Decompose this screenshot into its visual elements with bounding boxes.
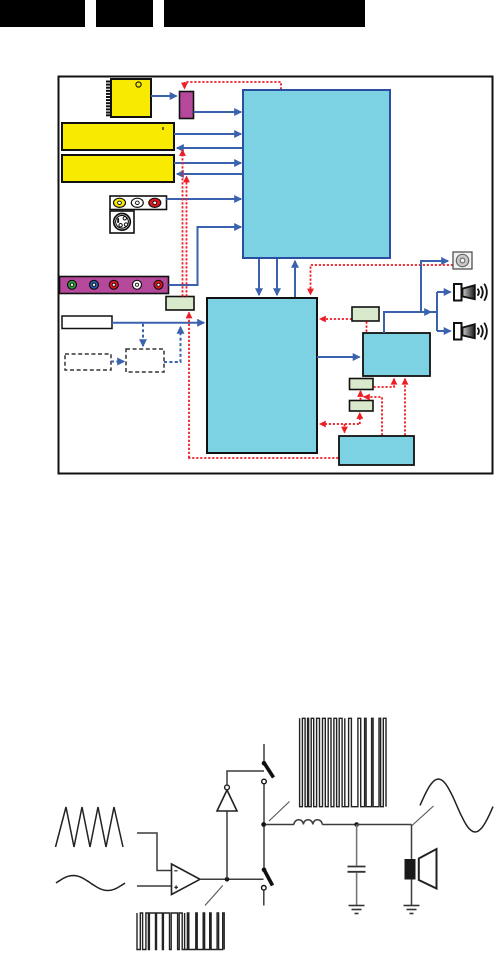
bus DSP to main IC <box>294 261 296 297</box>
speaker icon 1 <box>454 284 487 301</box>
PWM waveform at comparator output <box>137 913 224 950</box>
wire bottom switch down <box>263 890 265 905</box>
wire to speaker 1 <box>437 291 451 293</box>
comparator input wire minus <box>137 833 171 871</box>
speaker icon 2 <box>454 323 487 340</box>
tuner box 1 (yellow) <box>62 123 174 150</box>
inverter <box>217 785 237 811</box>
comparator input wire plus <box>137 885 171 887</box>
dashed supply line to tuner return 1 <box>182 150 184 297</box>
remote sensor dashed box <box>65 354 111 370</box>
cap node junction <box>354 822 359 827</box>
comparator output wire <box>200 878 264 880</box>
dashed wire sensor to remote box <box>111 361 124 363</box>
comparator U1 <box>172 864 201 895</box>
remote control dashed box <box>126 349 164 372</box>
power supply box (cyan) <box>339 436 414 465</box>
wire DVD to decoder <box>151 95 177 97</box>
bus main IC to DSP 1 <box>258 259 260 295</box>
dashed wire remote box up to key line <box>164 327 181 362</box>
main IC (large cyan) <box>243 90 390 258</box>
dashed feedback line into regulator 1 <box>188 313 190 459</box>
regulator green box 3 <box>350 379 374 390</box>
dashed power box branch to junction <box>364 397 382 436</box>
supply stub <box>263 744 265 762</box>
wire output node to bottom switch <box>263 826 265 868</box>
tuner box 2 (yellow) <box>62 155 174 182</box>
ground under speaker <box>404 906 420 914</box>
dashed supply line to tuner return 2 <box>186 177 188 297</box>
PWM waveform at switch output <box>300 718 386 806</box>
ground under capacitor <box>349 906 365 914</box>
triangle wave <box>56 807 124 847</box>
decoder box (purple) <box>180 92 194 119</box>
control dashed wire to decoder <box>185 82 282 90</box>
dashed link regulator 2 to amp <box>366 322 368 333</box>
wire rear jacks to main IC <box>169 227 242 285</box>
speaker split vertical <box>436 292 438 331</box>
wire node to inductor <box>266 824 295 826</box>
title bar 2 <box>96 0 153 27</box>
audio amp IC (cyan) <box>363 333 430 376</box>
wire main IC to tuner2 <box>177 173 243 175</box>
dashed power to regulator 4 <box>359 413 361 424</box>
leader line at speaker wire <box>412 806 434 826</box>
rear AV jack strip (magenta) <box>60 277 169 294</box>
wire AV input to main IC <box>167 198 242 200</box>
top switch <box>262 761 274 784</box>
dashed power box to amp <box>404 379 406 436</box>
wire DSP to amp <box>317 356 360 358</box>
node junction <box>225 877 230 882</box>
regulator green box 2 <box>352 307 379 321</box>
wire top switch to output node <box>263 784 265 823</box>
dashed power branch to power box <box>344 424 346 433</box>
bottom switch <box>262 868 273 891</box>
dashed regulator 4 to regulator 3 <box>360 391 362 400</box>
regulator green box 1 <box>166 297 194 311</box>
output sine wave <box>420 779 493 832</box>
wire speaker to ground <box>411 880 413 906</box>
wire down to speaker <box>411 825 413 860</box>
amp output wire <box>384 312 431 333</box>
inductor L1 <box>294 820 322 825</box>
DSP IC (second cyan) <box>207 298 317 453</box>
dashed wire key line to remote box <box>142 324 144 346</box>
DVD mechanism box <box>106 79 151 117</box>
subwoofer icon <box>453 252 472 269</box>
wire decoder to main IC <box>194 111 242 113</box>
wire inductor to cap node <box>322 824 356 826</box>
wire inverter to top switch <box>227 771 264 785</box>
leader line at comparator PWM <box>205 886 223 906</box>
wire main IC to tuner1 <box>177 147 243 149</box>
wire tuner2 to main IC <box>174 162 241 164</box>
dashed power to DSP <box>320 423 359 425</box>
wire key box to DSP <box>112 322 204 324</box>
leader line at output node <box>269 802 290 822</box>
input sine wave <box>56 876 125 891</box>
diagram panel border <box>59 77 493 474</box>
wire to subwoofer <box>421 261 448 312</box>
dashed line regulator 2 to DSP <box>320 318 352 320</box>
dashed line subwoofer out to DSP top <box>311 265 454 295</box>
wire node to inverter <box>226 811 228 879</box>
S-video DIN jack <box>110 211 134 233</box>
wire cap node to speaker <box>357 824 412 826</box>
regulator green box 4 <box>350 401 374 412</box>
dashed feedback bottom run <box>188 457 339 459</box>
output node <box>261 822 266 827</box>
speaker LS1 <box>405 849 437 889</box>
wire to speaker 2 <box>437 330 451 332</box>
title bar 1 <box>0 0 85 27</box>
bus main IC to DSP 2 <box>276 259 278 295</box>
title bar 3 <box>164 0 365 27</box>
capacitor C1 <box>348 825 366 906</box>
wire to speaker split <box>429 311 437 313</box>
dashed regulator 3 to amp <box>374 379 395 387</box>
AV input jacks (RCA strip) <box>110 196 167 210</box>
front key box (white) <box>62 316 112 329</box>
wire tuner1 to main IC <box>174 133 241 135</box>
